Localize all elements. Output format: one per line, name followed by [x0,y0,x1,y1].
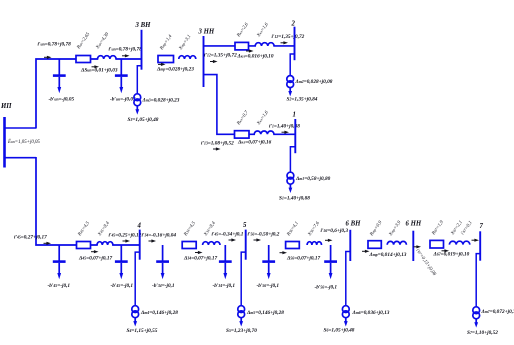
flow arrow before bus 6VN [325,239,333,242]
wire: IP top stub [4,127,37,129]
flow arrow after bus 4 [149,239,157,242]
capacitor b_ip1 shunt [53,59,66,93]
svg-text:i′45=-0,34+j0,1: i′45=-0,34+j0,1 [212,232,244,238]
wire: top feeder riser [36,59,142,129]
svg-text:Rкл=0,7: Rкл=0,7 [236,110,250,127]
flow arrow before bus 1 [282,131,290,134]
wire: transformer T2 hook [290,54,294,76]
transformer T5 winding [238,306,245,327]
svg-text:X56=7,6: X56=7,6 [307,221,321,238]
bus 3 NN [203,36,205,87]
svg-text:R34=4,5: R34=4,5 [183,221,197,238]
svg-text:i′45=0,25+j0,12: i′45=0,25+j0,12 [109,233,142,239]
svg-text:-b′56=-j0,1: -b′56=-j0,1 [257,283,280,289]
svg-text:3 ВН: 3 ВН [135,22,152,29]
transformer T4 winding [132,306,139,327]
svg-text:-b′34=-j0,1: -b′34=-j0,1 [152,283,175,289]
svg-text:Δ56=0,07+j0,17: Δ56=0,07+j0,17 [286,256,321,262]
wire: transformer T4 hook [135,252,140,306]
svg-text:Xкл=1,6: Xкл=1,6 [256,110,270,127]
svg-text:Δ45=0,07+j0,17: Δ45=0,07+j0,17 [78,256,113,262]
capacitor b_45a shunt [53,245,66,279]
svg-text:-b′56=-j0,1: -b′56=-j0,1 [315,285,338,291]
flow arrow before bus 3VN [122,54,130,57]
arrow above dTr3 label [158,63,166,66]
arrow above d67 label [442,249,450,252]
svg-text:ИП: ИП [0,103,12,110]
svg-text:Rип=2,65: Rип=2,65 [76,32,92,51]
transformer T6 winding [342,306,349,327]
svg-text:Δт6=0,036+j0,13: Δт6=0,036+j0,13 [352,310,390,316]
transformer T3 winding [134,94,141,115]
svg-text:Δкл=0,016+j0,10: Δкл=0,016+j0,10 [237,54,274,60]
svg-text:6 ВН: 6 ВН [346,221,362,228]
svg-text:5: 5 [243,222,247,229]
svg-text:i′ип=0,78+j0,78: i′ип=0,78+j0,78 [38,42,72,48]
flow arrow on top wire [44,56,52,59]
svg-text:2: 2 [291,21,296,28]
arrow above dS_ip label [92,65,100,68]
svg-text:S6=1,05+j0,48: S6=1,05+j0,48 [324,328,355,334]
svg-text:i′56=0,6+j0,3: i′56=0,6+j0,3 [321,228,349,234]
inductor X34 [203,242,220,245]
resistor R56 [286,242,300,249]
svg-text:i′56=-0,50+j0,2: i′56=-0,50+j0,2 [248,232,280,238]
capacitor b_34a shunt [156,245,169,279]
svg-text:i′45=0,27+j0,17: i′45=0,27+j0,17 [14,235,47,241]
svg-text:Rкл=2,6: Rкл=2,6 [236,22,250,39]
node IP source bus [3,117,6,168]
inductor X13 [254,131,274,134]
svg-text:Δт4=0,146+j0,28: Δт4=0,146+j0,28 [140,310,178,316]
arrow above d12 label [246,49,254,52]
transformer T2 winding [287,76,294,97]
resistor R_ip [76,56,91,63]
svg-text:Rтр=1,4: Rтр=1,4 [159,34,174,52]
resistor R67 [430,240,444,248]
inductor X67 [449,241,469,244]
svg-text:Δт1=0,58+j0,80: Δт1=0,58+j0,80 [295,176,331,182]
flow arrow bottom wire start [44,242,52,245]
svg-text:Δт5=0,146+j0,28: Δт5=0,146+j0,28 [246,310,284,316]
wire: transformer T6 hook [346,252,351,306]
svg-text:Xкл=1,6: Xкл=1,6 [256,22,270,39]
bus 7 [479,231,481,260]
svg-text:6 НН: 6 НН [406,221,422,228]
flow arrow before bus 4 [123,239,131,242]
inductor X12 [255,43,274,46]
flow arrow before bus 5 [229,238,237,241]
svg-text:ΔSип=0,01+j0,03: ΔSип=0,01+j0,03 [80,68,118,74]
svg-text:-b′ип=-j0,05: -b′ип=-j0,05 [110,97,136,103]
transformer T7 winding [473,307,480,328]
flow arrow before bus 7 [472,239,480,242]
resistor R45 [77,242,91,249]
bus 6 NN [412,231,414,261]
svg-text:1: 1 [293,112,296,119]
svg-text:S2=1,35+j0,84: S2=1,35+j0,84 [287,97,318,103]
wire: transformer T7 hook [476,254,480,307]
svg-text:Δт2=0,028+j0,08: Δт2=0,028+j0,08 [295,79,333,85]
wire: transformer T1 hook [290,147,295,172]
inductor X45 [97,242,113,245]
svg-text:i′34=-0,16+j0,04: i′34=-0,16+j0,04 [142,233,177,239]
wire: bottom feeder riser [36,157,140,245]
svg-text:Δтр=0,028+j0,23: Δтр=0,028+j0,23 [156,67,194,73]
capacitor b_56a shunt [262,245,275,279]
resistor R34 [182,242,196,249]
svg-text:Δтр=0,014+j0,13: Δтр=0,014+j0,13 [369,252,407,258]
flow arrow after bus 5 [254,238,262,241]
svg-text:Xтр=3,9: Xтр=3,9 [388,220,403,238]
svg-text:Δт3=0,028+j0,23: Δт3=0,028+j0,23 [142,98,180,104]
svg-text:Ėип=1,05+j0,05: Ėип=1,05+j0,05 [7,139,40,145]
wire: branch to node 2 [204,45,295,47]
capacitor b_56b shunt [324,245,337,279]
svg-text:i′12=1,35+j0,72: i′12=1,35+j0,72 [272,34,305,40]
arrow above d45 label [91,250,99,253]
bus 6 VN [349,230,351,261]
inductor X56 [307,242,321,245]
svg-text:i′ип=0,78+j0,78: i′ип=0,78+j0,78 [109,47,143,53]
svg-text:i′13=1,08+j0,52: i′13=1,08+j0,52 [201,141,234,147]
bus 5 [245,230,247,260]
flow arrow on branch 12 [210,60,218,63]
wire: IP bottom stub [4,157,37,159]
svg-text:3 НН: 3 НН [198,29,215,36]
resistor R_tr6 [368,241,381,249]
svg-text:Δ67=0,019+j0,10: Δ67=0,019+j0,10 [433,252,470,258]
svg-text:Δт7=0,072+j0,78: Δт7=0,072+j0,78 [481,309,514,315]
wire: transformer T5 hook [241,252,246,306]
resistor R13 [235,131,250,138]
svg-text:-b′ип=-j0,05: -b′ип=-j0,05 [49,97,75,103]
svg-text:S1=1,40+j0,88: S1=1,40+j0,88 [279,196,310,202]
svg-text:i′12=1,35+j0,72: i′12=1,35+j0,72 [204,53,237,59]
svg-text:-b′45=-j0,1: -b′45=-j0,1 [111,283,134,289]
svg-text:4: 4 [137,223,142,230]
inductor X_tr6 [387,241,406,244]
bus 2 [294,27,296,61]
flow arrow after bus 6NN [414,245,422,248]
svg-text:S4=1,15+j0,55: S4=1,15+j0,55 [127,328,158,334]
resistor R12 [235,42,249,50]
flow arrow on branch 13 [213,147,221,150]
wire: connector bus 3NN down [204,75,296,135]
inductor X_tr3 [179,56,196,59]
flow arrow before bus 2 [281,41,289,44]
capacitor b_ip2 shunt [115,59,128,93]
svg-text:7: 7 [480,223,484,230]
transformer T1 winding [287,172,294,193]
svg-text:S3=1,05+j0,48: S3=1,05+j0,48 [128,117,159,123]
inductor X_ip [98,56,117,59]
arrow above dTr6 label [362,250,370,253]
svg-text:S5=1,23+j0,70: S5=1,23+j0,70 [226,328,257,334]
bus 4 [139,230,141,260]
svg-text:-b′34=-j0,1: -b′34=-j0,1 [213,283,236,289]
svg-text:Rтр=0,9: Rтр=0,9 [369,220,384,238]
bus 3 VN [141,30,143,70]
svg-text:Δкл=0,07+j0,16: Δкл=0,07+j0,16 [237,140,272,146]
svg-text:Δ34=0,07+j0,17: Δ34=0,07+j0,17 [183,256,218,262]
arrow above d56 label [280,251,288,254]
wire: transformer T3 hook [137,66,141,94]
svg-text:R56=4,1: R56=4,1 [286,221,300,238]
svg-text:S7=1,10+j0,52: S7=1,10+j0,52 [467,330,498,336]
svg-text:R45=4,5: R45=4,5 [77,221,91,238]
svg-text:R67=1,9: R67=1,9 [431,220,445,237]
svg-text:-b′45=-j0,1: -b′45=-j0,1 [48,283,71,289]
svg-text:Xтр=3,1: Xтр=3,1 [178,34,192,52]
bus 1 [294,119,296,153]
arrow above d34 label [195,251,203,254]
resistor R_tr3 [158,56,174,63]
capacitor b_45b shunt [115,245,128,279]
capacitor b_34b shunt [219,245,232,279]
